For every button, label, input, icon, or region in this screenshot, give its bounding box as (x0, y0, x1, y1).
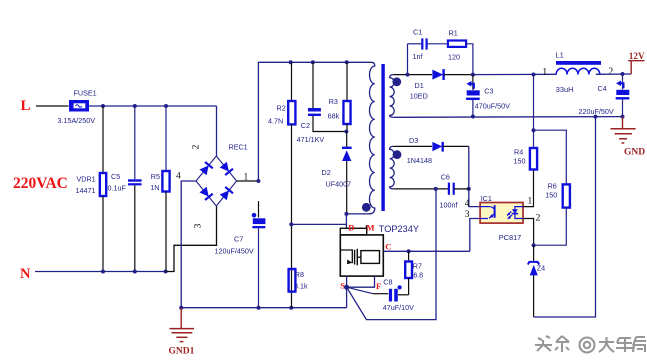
resistor R2 4.7N (268, 62, 295, 125)
resistor R5 1N (150, 106, 169, 272)
svg-text:GND1: GND1 (169, 347, 195, 357)
TOP234Y pin label F (376, 281, 381, 291)
optocoupler phototransistor (480, 205, 495, 218)
svg-text:L: L (21, 98, 31, 114)
inductor L1 33uH (556, 51, 602, 95)
svg-text:IC1: IC1 (481, 194, 492, 203)
transformer core (381, 64, 384, 211)
svg-text:M: M (366, 223, 374, 233)
optocoupler LED (507, 207, 523, 219)
resistor R3 68k (328, 62, 351, 133)
wire secondary 2 bottom lead (393, 187, 449, 191)
svg-text:3: 3 (194, 223, 204, 228)
svg-text:R6: R6 (548, 182, 557, 191)
svg-text:10ED: 10ED (410, 92, 428, 101)
svg-text:1N4148: 1N4148 (407, 156, 432, 165)
svg-text:33uH: 33uH (556, 85, 574, 94)
svg-text:2: 2 (608, 67, 613, 78)
capacitor C5 0.1uF (108, 106, 142, 272)
svg-text:4: 4 (465, 199, 470, 209)
svg-text:1nf: 1nf (413, 52, 423, 61)
svg-text:470uF/50V: 470uF/50V (475, 101, 510, 110)
svg-text:FUSE1: FUSE1 (74, 89, 97, 98)
wire opto pin 2 to feedback node (523, 219, 536, 248)
svg-text:120uF/450V: 120uF/450V (215, 247, 254, 256)
wire bridge pin 4 to primary ground bus (181, 181, 196, 308)
svg-text:R4: R4 (514, 148, 523, 157)
svg-text:R5: R5 (151, 172, 160, 181)
svg-text:R8: R8 (295, 270, 304, 279)
svg-text:C6: C6 (441, 173, 450, 182)
wire L line from fuse to bridge pin 2 with junctions (89, 104, 217, 156)
svg-text:D: D (348, 223, 354, 233)
svg-text:N: N (20, 266, 31, 282)
svg-text:220uF/50V: 220uF/50V (579, 107, 614, 116)
svg-text:C: C (385, 242, 391, 252)
svg-text:120: 120 (448, 53, 460, 62)
capacitor C8 47uF/10V (347, 278, 415, 313)
transformer secondary 1 phase dot (392, 77, 401, 86)
svg-text:150: 150 (514, 157, 526, 166)
inductor L1 pin number 1 (542, 67, 547, 78)
svg-text:REC1: REC1 (229, 143, 248, 152)
svg-text:TOP234Y: TOP234Y (379, 224, 419, 234)
node drain junction (D2 / primary / TOP234Y D) (344, 212, 348, 228)
svg-text:471/1KV: 471/1KV (297, 135, 325, 144)
optocoupler IC1 PC817 body (480, 194, 523, 242)
wire 0V secondary rail (393, 115, 622, 119)
svg-text:UF4007: UF4007 (326, 180, 352, 189)
svg-text:12V: 12V (629, 51, 645, 61)
ground GND symbol (secondary) (611, 117, 646, 158)
svg-text:220VAC: 220VAC (13, 175, 68, 192)
resistor R7 6.8 (405, 251, 423, 294)
svg-text:1N: 1N (150, 183, 159, 192)
inductor L1 pin number 2 (608, 67, 613, 78)
svg-text:C5: C5 (111, 172, 120, 181)
wire opto pin 3 to control line (470, 219, 480, 252)
transformer secondary 2 phase dot (393, 150, 402, 159)
wire TOP234Y control pin line (383, 249, 470, 253)
resistor R8 3.1k (289, 269, 308, 292)
capacitor C7 120uF/450V electrolytic (215, 201, 266, 308)
svg-text:C1: C1 (413, 28, 422, 37)
svg-text:2: 2 (536, 214, 541, 224)
bridge rectifier REC1 diamond (196, 143, 248, 207)
wire N line (35, 270, 168, 274)
optocoupler pin number 2 (536, 214, 541, 224)
svg-text:68k: 68k (328, 112, 340, 121)
op-amp U1 TOP234Y controller body (340, 224, 419, 276)
diode D3 1N4148 (407, 136, 469, 165)
svg-text:3.1k: 3.1k (294, 282, 308, 291)
svg-text:S: S (340, 281, 345, 291)
bridge pin number 4 (176, 172, 181, 182)
bridge diode bottom-right (219, 187, 233, 201)
resistor R6 150 (534, 130, 570, 245)
svg-text:4.7N: 4.7N (268, 117, 283, 126)
node 220VAC mains label (13, 175, 68, 192)
svg-text:D1: D1 (415, 81, 424, 90)
optocoupler pin number 4 (465, 199, 470, 209)
svg-text:R3: R3 (329, 97, 338, 106)
fuse FUSE1 (58, 89, 97, 126)
transformer primary winding (346, 62, 374, 214)
svg-text:0.1uF: 0.1uF (108, 184, 127, 193)
optocoupler pin number 1 (528, 197, 533, 207)
node 12V output terminal (628, 51, 645, 74)
wire secondary 2 top lead (393, 145, 432, 147)
transformer secondary winding 2 (390, 146, 395, 189)
wire D3 to opto pin 4 (467, 146, 480, 206)
svg-text:F: F (376, 281, 381, 291)
wire L1 to 12V output (596, 72, 631, 76)
capacitor C3 470uF/50V (466, 75, 510, 119)
node N (AC neutral terminal label) (20, 266, 31, 282)
watermark emboss underlay (536, 337, 647, 354)
resistor R4 150 (514, 75, 538, 170)
svg-text:1: 1 (542, 67, 547, 78)
node L (AC live terminal label) (21, 98, 31, 114)
wire TOP234Y source and F tab (344, 276, 375, 308)
wire zener return to 0V rail (534, 117, 596, 317)
svg-text:L1: L1 (556, 51, 564, 60)
watermark text bottom right (535, 336, 646, 353)
svg-text:3.15A/250V: 3.15A/250V (58, 116, 96, 125)
svg-text:1: 1 (528, 197, 533, 207)
svg-text:R1: R1 (449, 29, 458, 38)
svg-text:Z4: Z4 (537, 264, 545, 273)
TOP234Y pin label C (385, 242, 391, 252)
ground GND1 symbol (169, 308, 195, 357)
svg-text:VDR1: VDR1 (77, 175, 96, 184)
svg-text:14471: 14471 (76, 186, 96, 195)
resistor R1 120 snubber (428, 29, 475, 77)
optocoupler pin number 3 (465, 210, 470, 220)
diode D1 10ED (410, 69, 473, 100)
bridge pin number 2 (192, 144, 202, 149)
capacitor C1 1nf snubber (408, 28, 427, 75)
wire bridge pin 1 to DC+ node (237, 179, 261, 183)
wire R2 bottom to R8 and clamp return (289, 124, 346, 307)
TOP234Y pin label S (340, 281, 345, 291)
svg-text:C3: C3 (484, 87, 493, 96)
svg-text:C7: C7 (234, 235, 243, 244)
svg-text:C2: C2 (301, 121, 310, 130)
bridge diode top-right (219, 161, 233, 175)
svg-text:R7: R7 (413, 262, 422, 271)
varistor VDR1 14471 (76, 106, 107, 272)
TOP234Y pin label M (366, 223, 374, 233)
svg-text:GND: GND (624, 148, 645, 158)
bridge pin number 1 (244, 173, 249, 183)
svg-text:D2: D2 (322, 168, 331, 177)
svg-text:47uF/10V: 47uF/10V (383, 303, 414, 312)
bridge pin number 3 (194, 223, 204, 228)
wire DC+ riser and top rail (258, 60, 371, 181)
svg-text:C4: C4 (598, 84, 607, 93)
svg-text:3: 3 (465, 210, 470, 220)
svg-text:2: 2 (192, 144, 202, 149)
capacitor C2 471/1KV (297, 62, 347, 144)
bridge diode bottom-left (199, 186, 213, 200)
capacitor C6 100nf (440, 173, 469, 210)
TOP234Y pin label D (348, 223, 354, 233)
TOP234Y internal MOSFET (340, 249, 379, 265)
wire L line from terminal to fuse (36, 105, 69, 107)
svg-text:PC817: PC817 (499, 233, 522, 242)
wire primary ground bus (179, 306, 346, 310)
transformer secondary winding 1 (390, 75, 395, 118)
svg-text:6.8: 6.8 (413, 271, 423, 280)
transformer primary phase dot (362, 203, 371, 212)
wire source return to bias winding (347, 189, 436, 320)
wire secondary 1 top lead (393, 73, 432, 77)
svg-text:R2: R2 (277, 104, 286, 113)
bridge diode top-left (199, 162, 213, 176)
svg-text:150: 150 (545, 191, 557, 200)
wire 12V rail D1 to L1 (473, 73, 556, 77)
svg-text:C8: C8 (383, 278, 392, 287)
svg-text:4: 4 (176, 172, 181, 182)
zener diode Z4 (528, 245, 545, 317)
wire opto pin 1 to R4 (523, 170, 534, 207)
wire N to bridge pin 3 (stepped segment) (166, 206, 217, 272)
svg-text:D3: D3 (409, 136, 418, 145)
capacitor C4 220uF/50V (579, 74, 630, 119)
diode D2 UF4007 (322, 132, 352, 214)
svg-text:100nf: 100nf (440, 201, 458, 210)
